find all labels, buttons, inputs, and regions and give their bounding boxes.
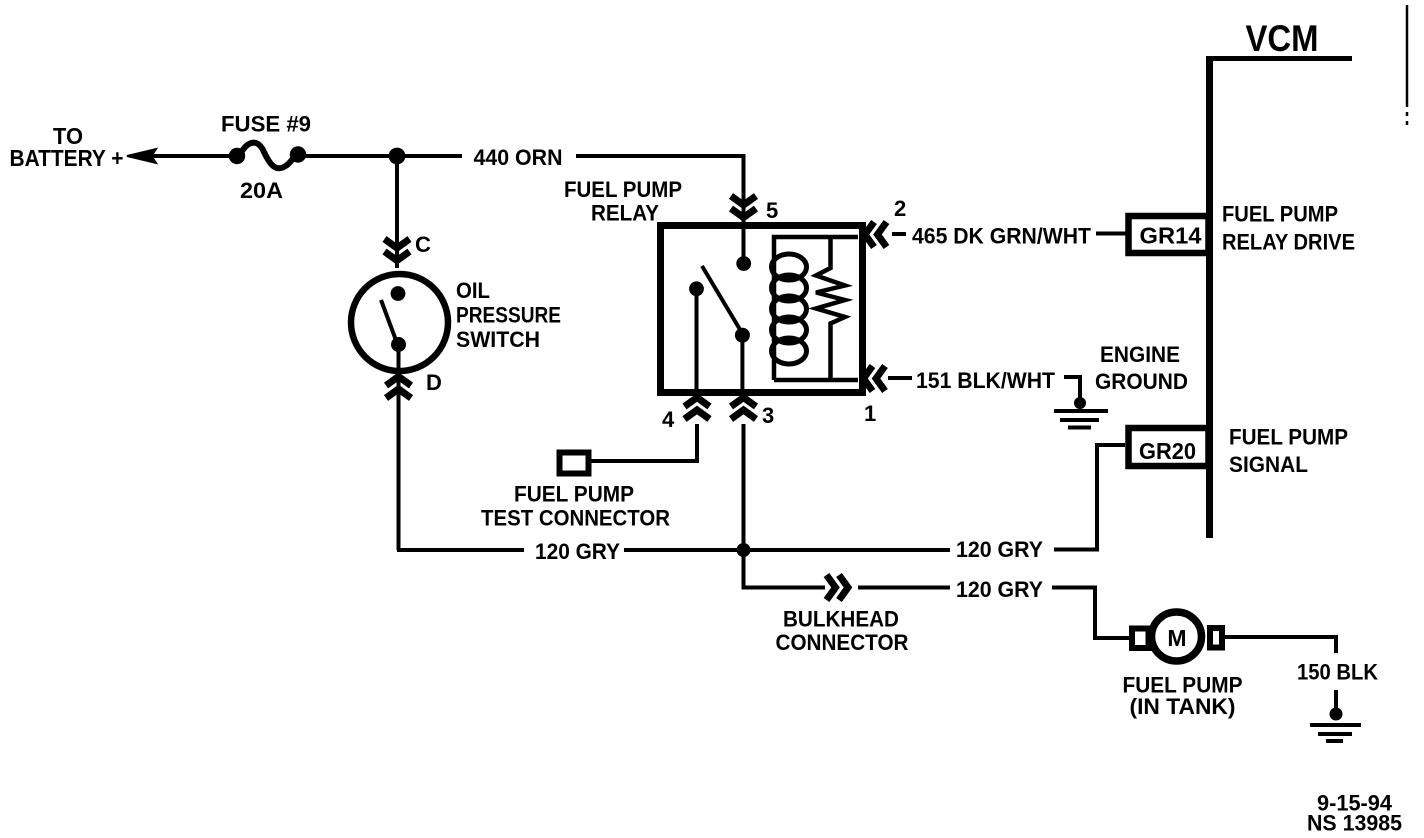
svg-text:120 GRY: 120 GRY — [956, 577, 1043, 602]
fuse F9 — [229, 148, 245, 164]
connector pin 5 — [731, 196, 756, 218]
VCM module boundary — [1206, 56, 1352, 61]
fuel pump motor M1 — [1132, 629, 1149, 649]
wire GR20 to 120 GRY — [1054, 445, 1125, 550]
wire pin 3 inside relay — [740, 335, 744, 396]
svg-text:FUEL PUMP: FUEL PUMP — [564, 177, 682, 202]
wire 150 BLK — [1224, 637, 1336, 653]
wire 120 GRY to fuel pump — [858, 586, 950, 590]
connector pin 4 — [685, 398, 710, 420]
svg-text:FUEL PUMP: FUEL PUMP — [1229, 425, 1348, 450]
svg-text:3: 3 — [762, 403, 774, 428]
wire pin 4 inside relay — [695, 289, 699, 396]
fuel pump test connector — [560, 453, 589, 474]
svg-text:C: C — [415, 232, 431, 257]
svg-text:SWITCH: SWITCH — [456, 327, 540, 352]
svg-text:120 GRY: 120 GRY — [956, 537, 1043, 562]
connector pin C — [385, 239, 410, 261]
wire 465 DK GRN/WHT — [892, 232, 906, 236]
svg-text:440 ORN: 440 ORN — [474, 145, 563, 170]
ground (fuel pump) — [1330, 708, 1343, 721]
relay coil L1 — [772, 254, 807, 364]
relay coil inner box — [774, 237, 858, 380]
wire to engine ground — [1064, 377, 1080, 400]
wire pin 5 feed — [742, 155, 746, 264]
relay resistor R1 — [816, 237, 845, 380]
svg-text:FUSE #9: FUSE #9 — [221, 112, 311, 137]
wire pin 3 down to node — [742, 424, 746, 587]
junction: fuse output node — [389, 148, 406, 165]
wire pin 4 to test connector — [591, 424, 697, 461]
junction node on 120 GRY — [737, 543, 751, 557]
svg-text:VCM: VCM — [1246, 18, 1319, 59]
svg-text:TEST CONNECTOR: TEST CONNECTOR — [481, 506, 670, 531]
svg-text:FUEL PUMP: FUEL PUMP — [514, 482, 634, 507]
svg-text:GROUND: GROUND — [1095, 369, 1188, 394]
wire: node to oil pressure switch — [395, 156, 399, 268]
connector pin D — [386, 377, 411, 399]
svg-text:5: 5 — [766, 198, 778, 223]
connector pin 1 — [864, 366, 886, 391]
connector pin 3 — [731, 398, 756, 420]
svg-text:151 BLK/WHT: 151 BLK/WHT — [916, 368, 1056, 393]
svg-text:RELAY: RELAY — [591, 201, 659, 226]
engine ground symbol — [1074, 397, 1086, 409]
svg-text:(IN TANK): (IN TANK) — [1130, 694, 1236, 719]
svg-text:GR20: GR20 — [1139, 438, 1196, 464]
svg-text:D: D — [426, 370, 442, 395]
svg-text:RELAY DRIVE: RELAY DRIVE — [1222, 230, 1355, 255]
svg-text:M: M — [1167, 625, 1186, 651]
fuel pump relay K1 box — [661, 226, 863, 393]
svg-text:SIGNAL: SIGNAL — [1229, 452, 1308, 477]
wire 120 GRY (main run) — [397, 548, 524, 552]
wire to battery ground — [1334, 690, 1338, 712]
wire: switch to 120 GRY run — [397, 344, 401, 404]
svg-text:CONNECTOR: CONNECTOR — [776, 630, 909, 655]
svg-text:PRESSURE: PRESSURE — [456, 303, 561, 328]
wire 151 BLK/WHT — [888, 376, 912, 380]
svg-text:20A: 20A — [240, 178, 283, 203]
svg-text:120 GRY: 120 GRY — [535, 539, 620, 564]
terminal GR20 — [1129, 428, 1209, 466]
svg-text:4: 4 — [662, 407, 675, 432]
svg-text:OIL: OIL — [456, 278, 490, 303]
svg-text:465 DK GRN/WHT: 465 DK GRN/WHT — [912, 224, 1092, 249]
svg-text:BATTERY +: BATTERY + — [10, 145, 124, 171]
svg-text:GR14: GR14 — [1140, 223, 1202, 249]
svg-text:FUEL PUMP: FUEL PUMP — [1222, 202, 1338, 227]
wire node down to bulkhead run — [744, 550, 826, 588]
oil pressure switch S1 — [351, 274, 448, 371]
connector pin 2 — [865, 222, 887, 247]
wire 440 ORN — [298, 154, 462, 158]
svg-text:2: 2 — [894, 196, 906, 221]
svg-text:150 BLK: 150 BLK — [1297, 660, 1378, 685]
svg-text:ENGINE: ENGINE — [1100, 342, 1180, 367]
VCM right page edge mark — [1406, 5, 1409, 107]
svg-text:BULKHEAD: BULKHEAD — [783, 607, 899, 632]
bulkhead connector — [827, 575, 849, 600]
svg-text:1: 1 — [864, 401, 876, 426]
terminal GR14 — [1129, 216, 1209, 253]
svg-text:NS 13985: NS 13985 — [1307, 811, 1402, 836]
relay switch contacts — [736, 256, 751, 271]
wire: battery feed with arrowhead — [127, 149, 156, 163]
